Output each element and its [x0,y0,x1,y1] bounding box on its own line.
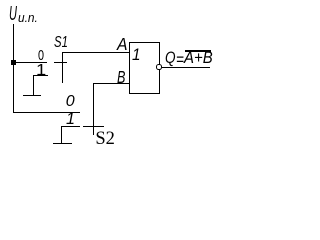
waveform step at S2 [61,126,80,127]
label A [117,36,128,54]
label Q=A+B [165,49,176,66]
gate output inversion bubble [156,64,161,69]
label 1 inside gate [132,46,141,63]
label 0 at switch S2 [66,94,75,110]
waveform step at S1 [33,75,48,76]
overline over A+B [185,50,211,52]
switch S2 pole [93,83,94,135]
node Uип supply label [9,4,17,24]
wire output Q horizontal [162,67,211,68]
gate U1 NOR body rectangle [129,42,160,94]
wire S2 feed horizontal (bottom of rail) [13,112,80,113]
switch S1 pole [62,52,63,83]
switch S2 contact bar [83,126,104,127]
label 1 at switch S1 [36,63,46,79]
label S2 [95,130,115,149]
label S1 [54,35,68,51]
switch S1 contact bar [54,62,68,63]
node junction dot on rail [11,60,16,65]
wire input B horizontal [93,83,129,84]
wire input A horizontal [62,52,129,53]
wire supply rail vertical [13,24,14,113]
label B [117,69,125,87]
label 0 at switch S1 [38,48,44,63]
wire S1 feed horizontal [13,62,47,63]
label 1 at switch S2 [66,110,75,127]
